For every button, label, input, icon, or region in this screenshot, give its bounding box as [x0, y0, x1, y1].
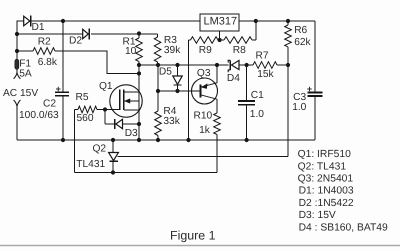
svg-text:33k: 33k: [163, 116, 180, 127]
svg-text:+: +: [307, 84, 312, 94]
svg-text:+: +: [56, 84, 61, 94]
svg-text:D3: 15V: D3: 15V: [299, 210, 336, 221]
svg-text:R5: R5: [76, 92, 89, 103]
svg-text:Q2: Q2: [93, 144, 107, 155]
svg-text:D2 :1N5422: D2 :1N5422: [299, 198, 354, 209]
svg-text:C1: C1: [251, 90, 264, 101]
svg-text:R7: R7: [256, 51, 269, 62]
svg-text:Figure 1: Figure 1: [170, 228, 216, 242]
svg-text:39k: 39k: [164, 45, 181, 56]
svg-text:Q2: TL431: Q2: TL431: [298, 161, 347, 172]
svg-text:Q1: Q1: [99, 81, 113, 92]
svg-text:D5: D5: [159, 67, 172, 78]
svg-text:62k: 62k: [294, 37, 311, 48]
svg-text:TL431: TL431: [76, 159, 105, 170]
svg-text:LM317: LM317: [204, 16, 238, 28]
svg-text:Q3: Q3: [197, 68, 211, 79]
svg-text:AC 15V: AC 15V: [3, 88, 38, 99]
svg-text:Q1: IRF510: Q1: IRF510: [298, 149, 351, 160]
svg-text:R8: R8: [233, 45, 246, 56]
svg-text:5A: 5A: [19, 69, 32, 80]
svg-text:Q3: 2N5401: Q3: 2N5401: [298, 174, 354, 185]
svg-text:1.0: 1.0: [250, 109, 264, 120]
svg-text:D4: D4: [227, 73, 240, 84]
svg-text:R2: R2: [38, 37, 51, 48]
svg-text:R6: R6: [294, 25, 307, 36]
svg-text:1k: 1k: [199, 125, 211, 136]
svg-text:6.8k: 6.8k: [38, 57, 58, 68]
svg-text:15k: 15k: [257, 69, 274, 80]
svg-text:D3: D3: [125, 128, 138, 139]
svg-text:R9: R9: [199, 45, 212, 56]
svg-text:D1: 1N4003: D1: 1N4003: [299, 186, 354, 197]
svg-text:10: 10: [125, 46, 137, 57]
svg-text:R10: R10: [194, 111, 213, 122]
svg-text:C2: C2: [43, 99, 56, 110]
svg-text:D2: D2: [69, 36, 82, 47]
svg-text:D4 : SB160, BAT49: D4 : SB160, BAT49: [299, 222, 388, 233]
svg-text:100.0/63: 100.0/63: [19, 110, 59, 121]
svg-text:D1: D1: [32, 22, 45, 33]
svg-text:560: 560: [77, 113, 94, 124]
svg-text:1.0: 1.0: [292, 102, 306, 113]
